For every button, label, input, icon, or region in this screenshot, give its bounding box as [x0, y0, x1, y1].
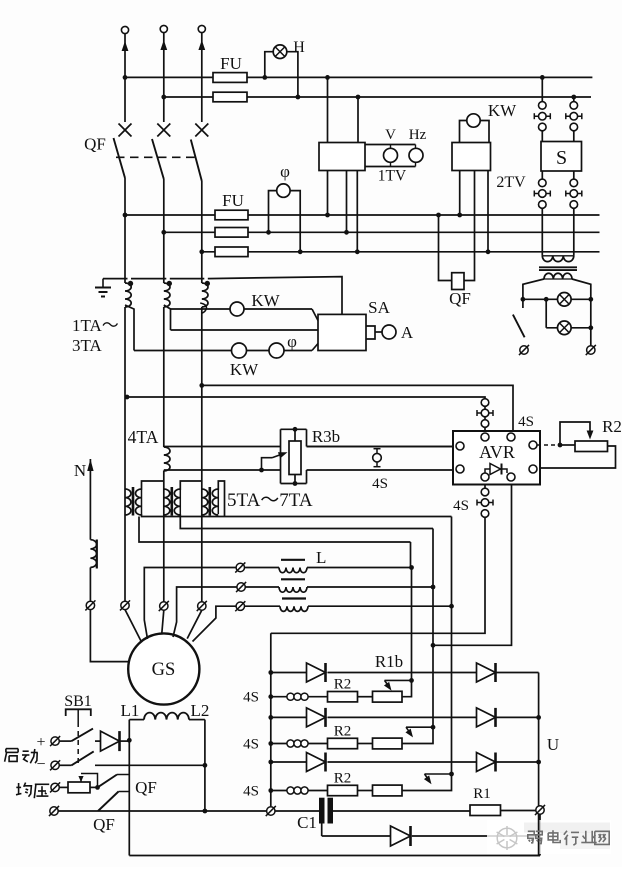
junction H-bus2: [296, 95, 301, 100]
label 4S AVR bottom: [453, 498, 469, 514]
wire AVR to R2 dashed: [537, 444, 560, 446]
junction lamp row1 mid: [544, 297, 549, 302]
watermark text: [528, 830, 609, 845]
label 1TA~3TA: [72, 316, 119, 355]
label L2: [191, 701, 210, 720]
terminal AVR top right: [507, 433, 515, 441]
resistor R2 row3: [328, 785, 358, 795]
svg-text:R2: R2: [334, 677, 352, 693]
label start (qi dong): [5, 749, 38, 764]
junction 1TV-bus2: [356, 95, 361, 100]
wire start plus b: [95, 740, 101, 742]
transformer 7TA core: [209, 487, 212, 516]
svg-text:4S: 4S: [372, 476, 388, 492]
wire 1TV primary lead a: [327, 77, 329, 142]
label 5TA~7TA: [227, 490, 313, 511]
wire field coil line left: [129, 719, 144, 721]
diode field flashing: [101, 731, 120, 751]
rheostat row1: [373, 691, 403, 702]
connector line2: [159, 601, 169, 611]
svg-text:Hz: Hz: [409, 127, 427, 143]
wire phi row to SA: [312, 344, 318, 351]
wire to S box top right: [573, 131, 575, 142]
wire 5TA sec top link: [142, 481, 164, 490]
arrow up feeder line 3: [198, 33, 205, 122]
wire AVR bottom right down: [433, 485, 512, 646]
wire row811 c: [275, 810, 319, 812]
resistor R3b: [289, 441, 301, 475]
meter KW bracket: [460, 121, 490, 143]
label GS: [152, 660, 176, 680]
terminal AVR bottom left: [481, 473, 489, 481]
svg-text:4S: 4S: [518, 414, 534, 430]
plug circle S-top-left-1: [539, 102, 547, 110]
terminal AVR top left: [481, 433, 489, 441]
wire meter rail top: [365, 144, 416, 146]
wire bottom rail: [129, 855, 540, 857]
connector R1 rail: [535, 805, 545, 815]
svg-text:L2: L2: [191, 701, 210, 720]
wire v433 down: [432, 587, 434, 727]
wire CT top link: [103, 278, 204, 280]
wire line1 into GS: [125, 610, 142, 642]
breaker linkage dashed line: [116, 156, 197, 158]
wire res row1 a: [271, 696, 287, 698]
plug circle S-top-right-2: [570, 123, 578, 131]
wire equalize b: [90, 786, 98, 788]
breaker contact X line 1: [119, 124, 132, 137]
contact QF box: [452, 273, 464, 290]
svg-text:−: −: [36, 756, 45, 773]
junction AVRbotright-v433: [431, 643, 436, 648]
wire R3b to AVR lower: [307, 469, 457, 471]
wire res row3 c: [358, 790, 373, 792]
svg-text:FU: FU: [220, 54, 242, 73]
svg-text:KW: KW: [251, 291, 280, 310]
junction phi-bus4: [266, 230, 271, 235]
circuit breaker QF pole 3 blade: [191, 140, 202, 252]
fuse FU mid 1: [215, 210, 248, 220]
svg-text:A: A: [401, 323, 414, 342]
switch start minus blade: [72, 751, 94, 765]
wire Lrow1: [144, 568, 411, 640]
wire rowC corner down: [410, 542, 412, 568]
wire v451 down: [451, 606, 453, 774]
wire CT3 top to SA: [208, 277, 342, 315]
plug connector S-bot-left: [534, 190, 550, 198]
svg-text:QF: QF: [93, 815, 115, 834]
plug circle AVRbot-2: [481, 510, 489, 518]
terminal AVR right upper: [529, 441, 537, 449]
svg-text:SA: SA: [368, 298, 390, 317]
label S: [556, 147, 567, 169]
plug connector 4S AVR top: [477, 409, 493, 417]
meter phi 2: [269, 343, 284, 358]
terminal AVR bottom right: [507, 473, 515, 481]
svg-text:5TA～7TA: 5TA～7TA: [227, 490, 313, 511]
junction rail-res row2: [268, 741, 273, 746]
plug circle S-bot-left-2: [539, 201, 547, 209]
svg-text:R2: R2: [334, 771, 352, 787]
wire R2 left: [560, 444, 575, 446]
circuit breaker QF pole 1 blade: [114, 138, 126, 215]
wire sync sec left: [523, 279, 544, 299]
pushbutton SB1: [66, 709, 91, 716]
inductor L row3: [280, 599, 308, 612]
terminal AVR left lower: [456, 465, 464, 473]
wire line2 into GS: [162, 610, 164, 637]
wire start plus: [59, 740, 71, 742]
switch SA box: [318, 314, 366, 350]
wire freewheel b: [412, 835, 539, 837]
wire S chain right from bus2: [573, 97, 575, 102]
svg-text:1TV: 1TV: [378, 168, 407, 185]
bus 4 (y=232.3): [164, 231, 600, 233]
label Hz: [409, 127, 427, 143]
svg-text:4S: 4S: [453, 498, 469, 514]
diode right row1: [477, 663, 496, 682]
coil 4S row2: [287, 740, 308, 747]
transformer 1TV box: [319, 143, 365, 171]
plug circle AVRbot-1: [481, 488, 489, 496]
ground symbol: [95, 279, 111, 297]
wire 7TA stub: [224, 490, 226, 517]
bus 5 (y=251.8): [202, 251, 600, 253]
wire line1 lower: [124, 307, 126, 601]
junction rheostat row1 tap: [409, 678, 414, 683]
current transformer 1TA: [125, 283, 131, 307]
wire rheostat row1 out: [402, 680, 412, 696]
junction rail-diode row2: [268, 715, 273, 720]
junction rail-diode row1: [268, 670, 273, 675]
wire S chain left from bus1: [541, 77, 543, 101]
svg-text:3TA: 3TA: [72, 336, 103, 355]
wire from S box bottom right: [573, 171, 575, 179]
wire line2 lower: [163, 471, 165, 602]
junction 1TV-bus1: [325, 75, 330, 80]
plug circle AVRtop-1: [481, 399, 489, 407]
inductor L1L2 field coil: [144, 713, 189, 720]
wire freewheel a: [322, 835, 391, 837]
svg-text:R1b: R1b: [375, 652, 403, 671]
wire SA mid row: [171, 329, 319, 331]
wire res row1 b: [308, 696, 328, 698]
node terminal circle line 3: [198, 25, 205, 32]
inductor L row2: [279, 579, 307, 592]
label 4S row2: [243, 737, 259, 753]
junction Lrow1-v411: [409, 565, 414, 570]
svg-text:KW: KW: [230, 360, 259, 379]
label KW 2TV: [488, 101, 517, 120]
label C1: [297, 813, 317, 832]
wire row811 d: [333, 810, 470, 812]
wire CT2 exit drop: [164, 305, 171, 330]
wire diode row2 left: [271, 716, 307, 718]
wire R3b to AVR upper: [307, 446, 457, 448]
inductor L row1: [279, 560, 307, 573]
label U: [547, 735, 559, 754]
resistor R1: [470, 805, 501, 816]
svg-text:SB1: SB1: [64, 693, 92, 710]
arrow up feeder line 1: [122, 34, 129, 122]
wire KW2 phi row: [134, 350, 312, 352]
diode left row3: [307, 753, 326, 772]
junction minus-L2drop: [203, 763, 208, 768]
wire diode to junction: [120, 740, 130, 742]
lamp sync 1: [558, 293, 572, 307]
wire equalize a: [59, 786, 68, 788]
label SB1: [64, 693, 92, 710]
arrow N: [87, 459, 93, 540]
ct dot 2: [167, 281, 172, 286]
wire KW1 row: [171, 308, 313, 310]
wire line3 bus5-CT: [201, 252, 203, 283]
meter KW on 2TV: [467, 114, 480, 127]
plug circle AVRtop-2: [481, 420, 489, 428]
current transformer 2TA: [164, 283, 170, 307]
svg-text:L1: L1: [121, 701, 140, 720]
wiper rheostat row3: [424, 774, 452, 784]
wiper R3b arrow: [262, 452, 288, 470]
transformer sync primary: [542, 256, 574, 262]
junction H-bus1: [262, 75, 267, 80]
diode AVR internal: [485, 464, 507, 475]
wire diode row3 right: [497, 761, 539, 763]
wire lamp row 1: [523, 298, 591, 300]
wire diode row3 mid: [328, 761, 477, 763]
lamp sync 2: [558, 321, 572, 335]
label QF bottom: [93, 815, 115, 834]
label L: [316, 548, 326, 567]
svg-text:4TA: 4TA: [128, 427, 159, 447]
connector equalize: [50, 782, 60, 792]
plug connector 4S S-top-right: [566, 112, 582, 120]
wire rowA corner down: [451, 517, 453, 607]
junction rail2-row2: [536, 715, 541, 720]
wire CT3 exit curl: [200, 303, 206, 313]
label KW2: [230, 360, 259, 379]
wire KW1 row to SA: [312, 309, 318, 321]
ct dot 1: [128, 281, 133, 286]
coil 4S row1: [287, 693, 308, 700]
junction equalize: [95, 785, 100, 790]
junction 2TV-bus5: [486, 249, 491, 254]
plug connector 4S mid: [373, 449, 382, 467]
svg-text:4S: 4S: [243, 737, 259, 753]
watermark backdrop: [487, 820, 611, 854]
connector Lrow3: [235, 601, 245, 611]
junction R2 left: [558, 443, 563, 448]
label 4S AVR top: [518, 414, 534, 430]
node terminal circle line 2: [160, 25, 167, 32]
wire diode row1 left: [271, 672, 307, 674]
junction rheostat row2 tap: [431, 725, 436, 730]
label N: [74, 461, 86, 480]
wire 7TA sec top link: [218, 481, 224, 490]
junction sense1: [125, 395, 130, 400]
label SA: [368, 298, 390, 317]
meter KW1: [230, 302, 244, 316]
reactor N coil: [90, 540, 96, 568]
svg-text:QF: QF: [135, 778, 157, 797]
wire lamp H right lead: [287, 52, 298, 97]
wire phi left lead: [269, 191, 277, 233]
wire row811 b: [98, 810, 267, 812]
connector sync right: [586, 345, 596, 355]
plug circle S-bot-right-1: [570, 179, 578, 187]
watermark logo: [497, 826, 518, 850]
label 2TV: [496, 174, 526, 191]
junction rail-res row3: [268, 788, 273, 793]
transformer sync secondary: [544, 273, 572, 279]
rheostat row2: [373, 738, 403, 749]
wiper equalize: [78, 774, 97, 788]
svg-text:R3b: R3b: [312, 427, 340, 446]
svg-text:U: U: [547, 735, 559, 754]
label L1: [121, 701, 140, 720]
wire right rail lower overlay: [510, 814, 540, 855]
diode freewheel: [391, 826, 411, 846]
wire S-bot-right down to transformer: [573, 208, 575, 256]
label 4S row3: [243, 784, 259, 800]
wire CT1 exit drop: [125, 305, 134, 351]
wire QF contact left lead: [439, 215, 452, 281]
svg-text:H: H: [293, 39, 305, 56]
wire 1TV secondary lead 2: [346, 171, 348, 233]
connector Lrow2: [236, 582, 246, 592]
wire to S box top left: [541, 131, 543, 142]
bus 3 (y=215): [125, 214, 600, 216]
transformer sync core: [539, 267, 577, 270]
svg-text:4S: 4S: [243, 784, 259, 800]
diode left row1: [307, 663, 326, 682]
transformer 5TA core: [132, 487, 135, 516]
wire diode row3 left: [271, 761, 307, 763]
wire R3b bottom stub: [294, 475, 296, 484]
label R2 row2: [334, 724, 352, 740]
wire res row2 b: [308, 743, 328, 745]
plug connector 4S S-top-left: [534, 112, 550, 120]
transformer 6TA secondary coil: [174, 489, 180, 515]
junction rail-res row1: [268, 694, 273, 699]
wire from S box bottom left: [541, 171, 543, 179]
plug connector 4S AVR bottom: [477, 499, 493, 507]
svg-text:φ: φ: [280, 162, 290, 181]
wire sync sec right: [572, 279, 591, 299]
svg-text:4S: 4S: [243, 690, 259, 706]
wire lamp row 2: [546, 327, 591, 329]
wiper R2 arrow: [560, 422, 593, 445]
svg-text:FU: FU: [222, 191, 244, 210]
transformer 6TA core: [171, 487, 174, 516]
meter V: [384, 145, 398, 167]
wire line1 bus3-CT: [124, 215, 126, 283]
label AVR: [479, 442, 515, 462]
junction lamp row2 right: [588, 325, 593, 330]
connector bottom QF: [49, 806, 59, 816]
fuse FU top 2: [213, 92, 247, 102]
connector start minus: [50, 760, 60, 770]
transformer 2TV box: [452, 143, 491, 171]
switch sync blade: [513, 315, 525, 338]
wire row811 e: [501, 810, 536, 812]
wire L2 drop: [204, 720, 206, 811]
junction Lrow3-v451: [449, 604, 454, 609]
wire 4TA bottom row: [164, 469, 281, 471]
junction line1-bus1: [123, 75, 128, 80]
lamp H: [273, 45, 287, 59]
label A ammeter side: [401, 323, 414, 342]
wire diode row1 mid: [328, 672, 477, 674]
diode right row3: [477, 753, 496, 772]
arrow up feeder line 2: [160, 33, 167, 122]
wire diode row2 right: [497, 716, 539, 718]
wire upper to AVR: [307, 446, 457, 448]
wire line2 CT-4TA: [163, 307, 165, 447]
switch start plus blade: [72, 729, 94, 742]
wire sense line1 to AVR top left: [127, 397, 485, 399]
wire 1TV primary lead b: [357, 97, 359, 143]
transformer 5TA primary coil: [125, 489, 131, 515]
junction lamp row1 left: [521, 297, 526, 302]
fuse FU top 1: [213, 73, 247, 83]
breaker contact X line 3: [195, 124, 208, 137]
meter A: [382, 325, 396, 339]
wire left rail top: [270, 633, 272, 806]
wire sync right down: [590, 299, 592, 345]
label H: [293, 39, 305, 56]
junction 2TV-bus3: [457, 213, 462, 218]
switch QF bottom blade: [98, 792, 129, 812]
transformer 7TA primary coil: [202, 489, 208, 515]
plug circle S-bot-left-1: [539, 179, 547, 187]
wire 2TV lead 3: [487, 171, 489, 252]
label phi 2: [287, 332, 297, 351]
svg-text:2TV: 2TV: [496, 174, 526, 191]
junction R3b wiper tap: [259, 468, 264, 473]
transformer 5TA secondary coil: [135, 489, 141, 515]
svg-text:R2: R2: [602, 417, 622, 436]
wire row811 a: [58, 810, 98, 812]
label minus: [36, 756, 45, 773]
label R2 row1: [334, 677, 352, 693]
svg-text:S: S: [556, 147, 567, 169]
switch QF equalize blade: [98, 775, 130, 788]
wire line3 into GS: [187, 610, 202, 638]
junction R3b bottom: [293, 481, 298, 486]
synchronoscope S box: [541, 142, 582, 172]
bus 2 (y=97): [164, 96, 591, 98]
generator GS circle: [128, 633, 199, 704]
label KW1: [251, 291, 280, 310]
wire 4TA top to R3b: [164, 446, 281, 448]
wire field left riser: [128, 720, 130, 741]
svg-text:C1: C1: [297, 813, 317, 832]
terminal AVR right lower: [529, 465, 537, 473]
wire diode row1 right: [497, 672, 539, 674]
wire meter rail bottom: [365, 166, 416, 168]
regulator AVR box: [453, 431, 540, 485]
svg-text:GS: GS: [152, 660, 176, 680]
wire R3b top stub: [294, 429, 296, 441]
svg-text:QF: QF: [84, 135, 106, 154]
terminal AVR left upper: [456, 442, 464, 450]
junction rail-diode row3: [268, 760, 273, 765]
resistor R2 row2: [328, 738, 358, 748]
label 4S mid: [372, 476, 388, 492]
wire S-bot-left down to transformer: [541, 208, 543, 256]
label R1: [473, 786, 491, 802]
